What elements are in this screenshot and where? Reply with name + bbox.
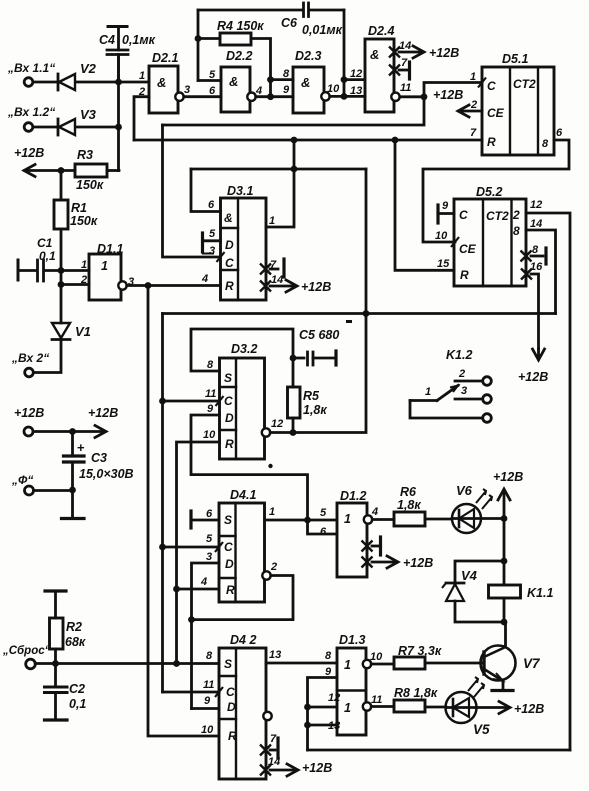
NAND gate D2.3 <box>293 67 324 113</box>
capacitor C4 0.1mk <box>108 25 127 28</box>
diode V3 <box>57 119 60 135</box>
power pin14 D4.2 to +12V <box>260 765 271 776</box>
svg-text:D: D <box>225 238 234 252</box>
wire R7 to base <box>425 662 484 665</box>
terminal "Вх 1.1" <box>24 78 33 87</box>
svg-text:K1.1: K1.1 <box>527 586 553 600</box>
wire R1 top <box>60 171 63 201</box>
svg-text:V5: V5 <box>473 722 490 737</box>
diode V4 zener <box>455 561 504 583</box>
collector wire up <box>504 622 507 647</box>
svg-text:1: 1 <box>269 506 275 518</box>
wire pin5 D2.2 from feedback <box>198 79 221 82</box>
svg-text:3: 3 <box>184 84 190 96</box>
svg-text:6: 6 <box>556 127 563 139</box>
wire input1 to V2 <box>33 81 57 84</box>
svg-text:&: & <box>224 211 233 225</box>
arrow +12V at V5 <box>476 706 509 709</box>
LED V6 <box>425 518 452 521</box>
svg-text:D5.1: D5.1 <box>502 52 528 66</box>
svg-text:„Вх 2“: „Вх 2“ <box>11 351 49 365</box>
pin14 output to y314 bus <box>526 230 556 314</box>
svg-text:11: 11 <box>400 82 411 94</box>
wire clock down to y125 bus <box>163 97 425 125</box>
counter D5.1 CT2 <box>482 67 554 155</box>
svg-text:+12В: +12В <box>493 470 523 484</box>
svg-text:9: 9 <box>283 84 290 96</box>
wire R4 left to pin5 rail <box>198 37 220 40</box>
svg-text:9: 9 <box>442 200 449 212</box>
node out1/x307 riser <box>304 517 311 524</box>
svg-text:2: 2 <box>80 274 87 286</box>
svg-text:R4 150к: R4 150к <box>217 19 264 33</box>
node V3 junction <box>115 124 122 131</box>
wire clock up to D5.1 C <box>424 83 482 97</box>
wire R4 right leg <box>251 39 271 97</box>
svg-text:V2: V2 <box>80 61 97 76</box>
svg-text:„Сброс“: „Сброс“ <box>2 645 51 657</box>
svg-text:CT2: CT2 <box>486 209 509 223</box>
svg-text:&: & <box>301 75 310 90</box>
output bubble D1.2 pin4 <box>364 515 372 523</box>
node reset-branch/pin4 <box>173 586 180 593</box>
wire +12V down to relay <box>503 519 506 562</box>
svg-text:8: 8 <box>325 650 332 662</box>
inverter D1.2 <box>337 503 367 577</box>
svg-text:11: 11 <box>371 694 382 706</box>
power pin 14 D2.4 to +12V <box>389 47 400 58</box>
flip-flop D3.2 <box>220 358 265 459</box>
svg-text:11: 11 <box>203 679 214 691</box>
svg-text:+12В: +12В <box>433 88 463 102</box>
clock bus lower vertical <box>161 314 164 693</box>
wire out10 to R7 <box>371 663 394 666</box>
output bubble D4.1 pin2 <box>262 571 270 579</box>
svg-text:R8 1,8к: R8 1,8к <box>394 686 438 700</box>
wire R3 up rail x118.5 <box>117 55 120 171</box>
node V6/+12V <box>501 515 508 522</box>
wire C6 right leg down <box>343 10 346 96</box>
svg-text:C6: C6 <box>281 16 298 30</box>
resistor R1 150k <box>54 200 68 229</box>
svg-text:D2.3: D2.3 <box>295 49 321 63</box>
pin9 tie bar <box>436 205 439 223</box>
pin4 R wire <box>177 588 220 591</box>
power pin8 D5.2 tie <box>521 251 532 262</box>
svg-text:V6: V6 <box>456 483 473 498</box>
svg-text:C: C <box>487 79 496 93</box>
svg-text:D: D <box>227 700 236 714</box>
svg-text:9: 9 <box>204 695 211 707</box>
resistor R5 1.8k <box>288 387 301 418</box>
svg-text:D3.2: D3.2 <box>231 342 257 356</box>
wire pin6 D3.1 from y169 bus <box>191 169 221 212</box>
capacitor C6 0.01mk <box>198 9 303 12</box>
svg-text:C2: C2 <box>69 682 85 696</box>
svg-text:D2.2: D2.2 <box>226 49 252 63</box>
svg-text:C5 680: C5 680 <box>299 328 339 342</box>
svg-text:R: R <box>225 437 234 451</box>
chassis ground below C3 <box>71 490 74 519</box>
NAND gate D2.1 <box>149 66 178 113</box>
node C3/ground <box>69 487 76 494</box>
svg-text:R: R <box>226 583 235 597</box>
rail bar above R2 <box>45 589 66 592</box>
svg-text:1: 1 <box>425 386 431 398</box>
svg-text:D2.4: D2.4 <box>368 24 394 38</box>
wire D2.3 out to node <box>330 95 344 98</box>
pin9 D from feedback <box>192 707 220 710</box>
svg-text:C3: C3 <box>91 451 107 465</box>
svg-text:8: 8 <box>207 359 214 371</box>
svg-text:8: 8 <box>513 224 520 238</box>
svg-text:2: 2 <box>458 368 465 380</box>
svg-text:D1.2: D1.2 <box>340 489 366 503</box>
svg-text:10: 10 <box>203 429 216 441</box>
output bubble D1.3 pin10 <box>363 660 371 668</box>
output bubble D1.3 pin11 <box>363 702 371 710</box>
output bubble D2.4 pin11 <box>391 93 399 101</box>
terminal "Вх 1.2" <box>24 123 33 132</box>
emitter to common <box>502 681 505 691</box>
svg-text:R2: R2 <box>66 620 82 634</box>
svg-text:C: C <box>225 256 234 270</box>
svg-text:C: C <box>226 685 235 699</box>
svg-text:+12В: +12В <box>301 280 331 294</box>
pin10 R D3.2 route down <box>177 442 220 664</box>
svg-text:6: 6 <box>320 526 327 538</box>
y314 bus <box>163 312 556 315</box>
LED V5 <box>425 706 446 709</box>
pin9 D1.3 tie <box>308 678 338 751</box>
pin2 CE arrow to +12V <box>459 110 482 113</box>
output pin1 D4.1 to D1.2 <box>265 519 338 522</box>
svg-text:R: R <box>487 135 496 149</box>
output bubble D1.1 pin3 <box>118 281 126 289</box>
svg-text:10: 10 <box>327 83 340 95</box>
svg-text:5: 5 <box>209 69 216 81</box>
svg-text:„Ф“: „Ф“ <box>11 473 33 487</box>
svg-text:D1.1: D1.1 <box>97 242 123 256</box>
svg-text:+12В: +12В <box>518 370 548 384</box>
node feedback/x191 <box>188 616 195 623</box>
svg-text:S: S <box>224 371 232 385</box>
output bubble D2.2 pin4 <box>247 93 255 101</box>
power pin 7 D2.4 to common <box>389 65 400 76</box>
wire pin2 D2.1 to reset line <box>134 97 149 140</box>
node out12/R5 <box>290 429 297 436</box>
svg-text:15,0×30В: 15,0×30В <box>79 467 134 481</box>
node R3/R1 junction <box>58 167 65 174</box>
svg-text:13: 13 <box>328 720 340 732</box>
flip-flop D4.1 <box>219 503 265 602</box>
svg-text:S: S <box>224 513 232 527</box>
node pin2 junction <box>58 281 65 288</box>
wire out12 to x366 riser <box>270 169 366 433</box>
wire pin1 D1.1 <box>61 269 89 272</box>
svg-text:2: 2 <box>138 86 145 98</box>
pin12 D1.3 <box>308 706 338 709</box>
svg-text:C1: C1 <box>37 236 53 250</box>
wire pin8 D2.3 <box>271 78 294 81</box>
diode V1 <box>60 285 63 324</box>
output bubble D3.2 pin12 <box>262 428 270 436</box>
node x307/pin12 <box>304 704 311 711</box>
svg-text:16: 16 <box>530 261 543 273</box>
wire R1 bottom to C1 node <box>60 229 63 271</box>
y169 bus <box>191 168 366 171</box>
power pin tie D1.2 <box>362 541 373 552</box>
output bubble D2.3 pin10 <box>321 92 329 100</box>
wire D2.4 out to clock node <box>400 95 424 98</box>
svg-text:D4 2: D4 2 <box>230 633 256 647</box>
svg-text:7: 7 <box>270 733 277 745</box>
node supply/C3 <box>69 428 76 435</box>
output pin13 D4.2 to D1.3 <box>266 662 337 665</box>
svg-text:V1: V1 <box>75 324 91 339</box>
svg-text:5: 5 <box>206 533 213 545</box>
pin1 slash <box>478 78 486 88</box>
output bubble D2.1 pin3 <box>175 93 183 101</box>
contact common <box>410 401 483 419</box>
+12V arrow above V6 <box>503 490 506 519</box>
node C6/pin13/out10 <box>341 93 348 100</box>
node R2/C2/reset <box>52 660 59 667</box>
svg-text:1,8к: 1,8к <box>397 498 421 512</box>
power pin7 D3.1 tie <box>260 264 271 275</box>
pin11 C D3.2 from clock bus <box>163 400 220 403</box>
svg-text:5: 5 <box>209 228 216 240</box>
counter D5.2 CT2 <box>454 199 526 286</box>
svg-text:+12В: +12В <box>14 146 44 160</box>
svg-text:9: 9 <box>207 403 214 415</box>
pin5 C from clock bus <box>163 546 220 549</box>
svg-text:D1.3: D1.3 <box>339 633 365 647</box>
svg-text:12: 12 <box>350 68 362 80</box>
svg-text:2: 2 <box>512 208 520 222</box>
output pin6 D5.1 <box>423 140 569 242</box>
svg-text:8: 8 <box>206 650 213 662</box>
svg-text:„Вх 1.2“: „Вх 1.2“ <box>7 105 55 119</box>
pin10 R from D1.1 branch <box>148 286 219 737</box>
svg-text:4: 4 <box>200 576 207 588</box>
ink speck <box>346 320 352 323</box>
ink speck 2 <box>268 464 272 468</box>
svg-text:68к: 68к <box>65 635 86 649</box>
svg-text:R: R <box>228 729 237 743</box>
svg-text:S: S <box>224 657 232 671</box>
node coil/V4 bottom <box>501 619 508 626</box>
svg-text:D3.1: D3.1 <box>227 184 253 198</box>
bottom bus to right rail <box>308 749 571 752</box>
svg-text:CE: CE <box>487 106 505 120</box>
svg-text:0,1мк: 0,1мк <box>122 33 156 47</box>
svg-text:8: 8 <box>532 244 539 256</box>
svg-text:R1: R1 <box>71 201 87 215</box>
pin6 S tie bar <box>189 511 192 528</box>
svg-text:R5: R5 <box>303 389 320 403</box>
reset wire to D4.2 S <box>35 662 219 665</box>
svg-text:1: 1 <box>344 658 351 672</box>
node C5/R5/S <box>290 355 297 362</box>
svg-text:8: 8 <box>283 68 290 80</box>
svg-text:+: + <box>77 440 85 455</box>
svg-text:5: 5 <box>320 507 327 519</box>
node clock distribution <box>421 93 428 100</box>
svg-text:R: R <box>460 268 469 282</box>
svg-text:1: 1 <box>344 512 351 526</box>
svg-text:1: 1 <box>81 259 87 271</box>
svg-text:1: 1 <box>344 701 351 715</box>
svg-text:&: & <box>370 47 379 62</box>
svg-text:D4.1: D4.1 <box>230 488 256 502</box>
node clock/pin11 <box>159 398 166 405</box>
svg-text:1,8к: 1,8к <box>303 403 327 417</box>
svg-text:C: C <box>224 540 233 554</box>
pin12 output to right rail <box>526 213 570 750</box>
node reset/x395 <box>392 137 399 144</box>
svg-text:R: R <box>225 279 234 293</box>
svg-text:V4: V4 <box>461 568 478 583</box>
NAND gate D2.4 <box>365 39 394 112</box>
relay coil K1.1 <box>503 561 506 585</box>
inverter pair D1.3 <box>337 648 366 735</box>
svg-text:R6: R6 <box>400 485 417 499</box>
svg-text:12: 12 <box>271 418 283 430</box>
svg-text:+12В: +12В <box>302 761 332 775</box>
flip-flop D3.1 <box>221 198 267 300</box>
wire to D1.2 pin6 <box>308 520 338 534</box>
wire D1.1 output to D3.1 R <box>127 284 221 287</box>
pin15 R wire from reset bus <box>395 140 454 270</box>
svg-text:+12В: +12В <box>514 702 544 716</box>
arrow +12V feed left <box>25 169 61 172</box>
terminal "Ф" <box>34 489 73 492</box>
terminal "Вх 2" <box>25 368 34 377</box>
node output3/reset-branch <box>145 282 152 289</box>
wire pin8 S D3.2 from C5 node <box>191 329 293 371</box>
node C6/pin12 <box>341 76 348 83</box>
svg-text:0,1: 0,1 <box>39 249 56 263</box>
svg-text:+12В: +12В <box>429 46 459 60</box>
svg-text:150к: 150к <box>76 178 104 192</box>
resistor R2 68k <box>50 618 64 649</box>
svg-text:R3: R3 <box>77 148 93 162</box>
power pin D1.2 to +12V <box>362 557 373 568</box>
node pin1/y169 <box>291 166 298 173</box>
svg-text:4: 4 <box>371 506 378 518</box>
node x307/pin13 <box>304 722 311 729</box>
svg-text:10: 10 <box>435 230 448 242</box>
slash CE D5.2 <box>451 237 459 247</box>
svg-text:C: C <box>224 394 233 408</box>
svg-text:7: 7 <box>401 57 408 69</box>
wire pin13 D2.4 <box>344 95 365 98</box>
svg-text:15: 15 <box>437 258 450 270</box>
pin3 D feedback <box>192 563 220 709</box>
svg-text:2: 2 <box>470 99 477 111</box>
wire input2 to V3 <box>33 126 57 129</box>
pin5 tie bar <box>201 233 204 252</box>
svg-text:12: 12 <box>328 692 340 704</box>
svg-text:0,01мк: 0,01мк <box>302 23 343 37</box>
node V2/C4 junction <box>115 79 122 86</box>
svg-text:D5.2: D5.2 <box>476 185 502 199</box>
wire V2 to node <box>76 81 150 84</box>
wire pin2 D1.1 <box>61 283 89 286</box>
wire D2.1 out to D2.2 pin6 <box>184 95 221 98</box>
svg-text:3: 3 <box>461 385 467 397</box>
svg-text:+12В: +12В <box>88 406 118 420</box>
contact arm <box>410 399 437 402</box>
node out4/R4 <box>267 93 274 100</box>
svg-text:13: 13 <box>269 649 281 661</box>
svg-text:1: 1 <box>139 70 145 82</box>
svg-text:CT2: CT2 <box>513 77 536 91</box>
node C1/R1/pin1 <box>58 267 65 274</box>
wire out11 to R8 <box>371 705 394 708</box>
svg-text:K1.2: K1.2 <box>446 348 472 362</box>
svg-text:1: 1 <box>101 259 108 273</box>
svg-text:9: 9 <box>325 666 332 678</box>
resistor R3 150k <box>75 164 107 177</box>
svg-text:0,1: 0,1 <box>69 697 86 711</box>
node clock/pin5 <box>159 544 166 551</box>
svg-text:C4: C4 <box>99 33 115 47</box>
wire out4 to R6 <box>372 518 394 521</box>
svg-text:8: 8 <box>542 138 549 150</box>
wire V1 to input terminal <box>34 340 62 373</box>
svg-text:6: 6 <box>208 199 215 211</box>
svg-text:CE: CE <box>459 242 477 256</box>
svg-text:1: 1 <box>470 71 476 83</box>
power pin14 D3.1 to +12V <box>260 281 271 292</box>
svg-text:14: 14 <box>399 40 411 52</box>
svg-text:&: & <box>157 75 166 90</box>
pin11 C from clock bus <box>163 691 220 694</box>
flip-flop D4.2 <box>219 648 266 779</box>
svg-text:10: 10 <box>201 724 214 736</box>
svg-text:D: D <box>225 557 234 571</box>
svg-text:3: 3 <box>209 245 215 257</box>
node R4/pin8 <box>267 76 274 83</box>
svg-text:2: 2 <box>270 561 277 573</box>
svg-text:+12В: +12В <box>14 406 44 420</box>
svg-text:D2.1: D2.1 <box>152 51 178 65</box>
NAND gate D2.2 <box>221 67 250 112</box>
svg-text:13: 13 <box>350 85 362 97</box>
svg-text:6: 6 <box>209 85 216 97</box>
wire out2 feedback <box>192 576 294 620</box>
svg-text:14: 14 <box>271 274 283 286</box>
svg-text:+12В: +12В <box>403 556 433 570</box>
svg-text:C: C <box>459 208 468 222</box>
pin9 D D3.2 route down <box>191 415 308 520</box>
output pin1 D3.1 to y169 bus <box>266 140 294 227</box>
svg-text:11: 11 <box>205 388 216 400</box>
wire D2.2 out to D2.3 <box>256 95 293 98</box>
svg-text:12: 12 <box>530 199 542 211</box>
node reset/x294 <box>291 137 298 144</box>
svg-text:3: 3 <box>206 551 212 563</box>
output bubble D4.2 unused <box>263 712 271 720</box>
node V4/K1.1 top <box>501 558 508 565</box>
capacitor C2 0.1 <box>54 664 57 688</box>
transistor V7 <box>481 646 516 681</box>
svg-text:„Вх 1.1“: „Вх 1.1“ <box>7 61 55 75</box>
node R4 left <box>195 35 202 42</box>
svg-text:150к: 150к <box>70 214 98 228</box>
